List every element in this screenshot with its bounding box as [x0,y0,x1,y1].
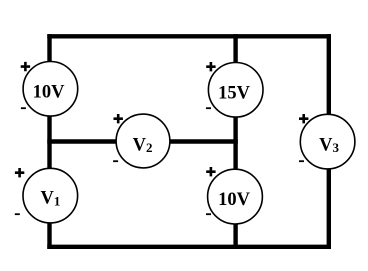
wire: top horizontal net [50,34,329,38]
body circle [23,62,78,117]
polarity - [299,160,304,162]
polarity - [21,107,26,109]
polarity + [206,167,215,176]
polarity + [206,62,215,71]
wire: middle vertical branch [233,36,237,247]
polarity + [299,114,308,123]
polarity - [15,213,20,215]
wire: right vertical branch [327,36,331,247]
polarity - [113,160,118,162]
voltage source V3 (right branch) [299,114,355,169]
wire: bottom horizontal net [50,245,329,249]
voltage source 10V (top-left branch) [21,62,78,117]
svg-text:15V: 15V [218,83,251,103]
voltage source V2 (middle horizontal branch) [113,114,170,168]
body circle [23,168,78,223]
wire: left vertical branch [47,36,51,247]
polarity - [206,107,211,109]
body circle [208,63,263,118]
svg-text:10V: 10V [218,190,251,210]
voltage source V1 (left branch, bottom) [15,168,78,223]
polarity + [114,114,123,123]
polarity + [21,62,30,71]
body circle [116,114,170,168]
body circle [300,114,355,169]
wire: middle horizontal branch [50,139,236,143]
body circle [208,169,263,224]
voltage source 15V (middle branch, top) [206,62,263,117]
polarity + [15,168,24,177]
voltage source 10V (middle branch, bottom) [206,167,262,224]
svg-text:10V: 10V [33,83,66,103]
polarity - [206,213,211,215]
